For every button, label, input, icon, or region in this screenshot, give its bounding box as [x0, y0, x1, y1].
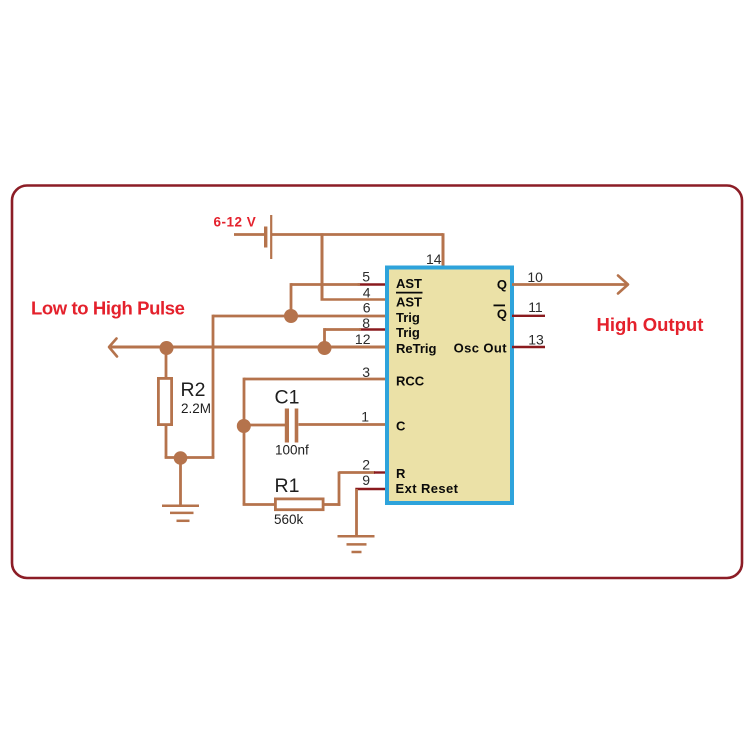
pin 11 stub [512, 315, 545, 317]
svg-text:9: 9 [362, 472, 370, 488]
svg-text:AST: AST [396, 295, 422, 310]
border frame [12, 186, 742, 579]
wire bottom link horizontal [165, 456, 215, 459]
arrowhead right [618, 276, 628, 294]
wire pin2 vertical [338, 472, 341, 506]
svg-text:Osc Out: Osc Out [454, 341, 508, 356]
svg-text:Q: Q [497, 277, 507, 292]
wire pin8 link horizontal [325, 328, 362, 331]
svg-text:ReTrig: ReTrig [396, 341, 437, 356]
node junction R2/main line [160, 341, 174, 355]
svg-text:C1: C1 [275, 387, 300, 409]
wire Q output [512, 283, 628, 286]
svg-text:AST: AST [396, 276, 422, 291]
wire ground G1 lead [179, 458, 182, 505]
wire RCC vertical drop [243, 378, 246, 505]
svg-text:2.2M: 2.2M [181, 401, 211, 416]
pin 2 stub [374, 471, 387, 473]
svg-text:3: 3 [362, 364, 370, 380]
wire battery left lead [234, 233, 264, 236]
svg-text:10: 10 [527, 269, 543, 285]
svg-text:6-12 V: 6-12 V [214, 215, 257, 230]
wire main retrig line [111, 346, 387, 349]
wire pin3 RCC horizontal [244, 378, 387, 381]
ground G2 [338, 536, 375, 552]
wire R2 bottom lead [165, 425, 168, 458]
battery B1 long plate [270, 215, 272, 259]
wire R2 top lead [165, 347, 168, 378]
svg-text:6: 6 [363, 300, 371, 316]
wire top supply rail [272, 233, 443, 236]
svg-text:14: 14 [426, 251, 442, 267]
svg-text:C: C [396, 419, 406, 434]
resistor R1 body [275, 499, 323, 510]
svg-text:8: 8 [362, 315, 370, 331]
svg-text:Trig: Trig [396, 310, 420, 325]
pin label AST overbar [396, 292, 423, 294]
svg-text:R2: R2 [181, 379, 206, 401]
svg-text:5: 5 [362, 269, 370, 285]
svg-text:560k: 560k [274, 512, 304, 527]
wire pin6 trig line [213, 315, 387, 318]
svg-text:4: 4 [363, 284, 371, 300]
pin 5 stub [358, 283, 388, 285]
wire pin5 link horizontal [291, 283, 360, 286]
wire C1 left lead [244, 424, 285, 427]
pin 13 stub [512, 346, 545, 348]
node junction pin5/pin6 [284, 309, 298, 323]
node junction pin8/main line [318, 341, 332, 355]
wire pin8 link vertical [323, 328, 326, 347]
svg-text:11: 11 [528, 299, 543, 315]
node junction C1/RCC [237, 419, 251, 433]
svg-text:13: 13 [528, 332, 544, 348]
node junction ground link [174, 451, 188, 465]
svg-text:R1: R1 [275, 475, 300, 497]
pin 8 stub [359, 328, 387, 330]
resistor R2 body [158, 378, 171, 424]
capacitor C1 right plate [295, 409, 299, 443]
wire pin14 drop [442, 233, 445, 265]
capacitor C1 left plate [285, 409, 289, 443]
wire pin1 lead [299, 423, 388, 426]
wire pin2 horizontal [339, 471, 375, 474]
svg-text:1: 1 [361, 409, 369, 425]
battery B1 short plate [264, 227, 267, 248]
wire ground G2 lead [355, 489, 358, 535]
svg-text:R: R [396, 466, 406, 481]
wire pin5 link vertical [290, 283, 293, 316]
svg-text:Low to High Pulse: Low to High Pulse [31, 298, 185, 319]
arrowhead left [109, 339, 117, 357]
wire pin4 branch horizontal [321, 298, 386, 301]
wire pin4 branch vertical [321, 233, 324, 299]
svg-text:Trig: Trig [396, 325, 420, 340]
wire R1 right lead [325, 503, 341, 506]
pin label Q-bar overbar [494, 304, 506, 306]
wire left vertical drop [212, 315, 215, 458]
svg-text:Q: Q [497, 307, 507, 322]
svg-text:12: 12 [355, 331, 371, 347]
svg-text:Ext Reset: Ext Reset [396, 481, 459, 496]
op-amp U1 CD4047 chip body [387, 268, 512, 504]
svg-text:100nf: 100nf [275, 443, 309, 458]
svg-text:2: 2 [362, 456, 370, 472]
svg-text:High Output: High Output [597, 314, 704, 335]
wire R1 left lead [243, 503, 274, 506]
svg-text:RCC: RCC [396, 374, 425, 389]
ground G1 [162, 506, 199, 521]
pin 9 stub [355, 488, 387, 490]
